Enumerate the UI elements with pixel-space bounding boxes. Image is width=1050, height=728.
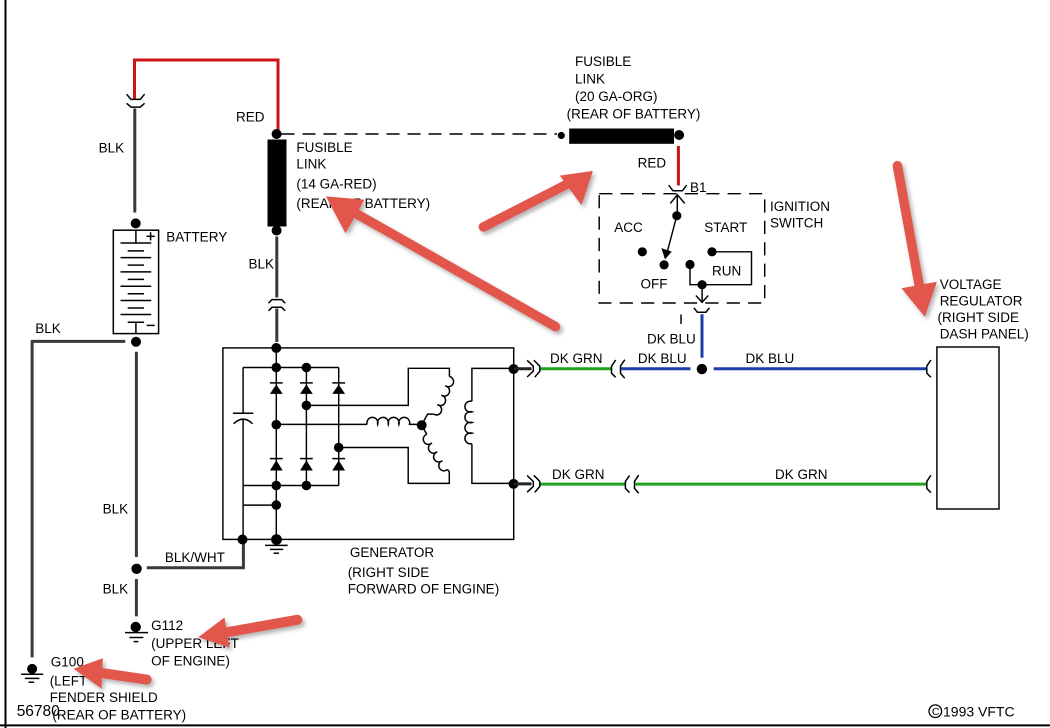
- node stator Y center: [417, 420, 427, 430]
- node generator output terminal bottom: [509, 479, 519, 489]
- svg-text:(RIGHT SIDE: (RIGHT SIDE: [938, 310, 1020, 325]
- svg-text:(REAR OF BATTERY): (REAR OF BATTERY): [567, 107, 701, 122]
- rectifier top rail: [243, 367, 339, 369]
- svg-text:OF ENGINE): OF ENGINE): [151, 654, 230, 669]
- ignition movable contact arm: [668, 216, 677, 251]
- diode D4: [270, 459, 283, 471]
- svg-text:BLK/WHT: BLK/WHT: [165, 550, 225, 565]
- wire stator phase 1: [306, 368, 449, 405]
- wire BLK battery negative down to G112: [135, 352, 138, 557]
- wire branch to BLK/WHT exit: [243, 504, 276, 506]
- battery minus mark: [147, 324, 155, 326]
- battery plus mark: [147, 232, 155, 240]
- copyright symbol: [929, 705, 942, 718]
- rectifier column 1: [275, 348, 277, 540]
- stator winding L3 (diagonal lower): [422, 425, 427, 434]
- node ignition output junction: [698, 280, 707, 289]
- svg-text:BATTERY: BATTERY: [166, 230, 227, 245]
- svg-text:1993 VFTC: 1993 VFTC: [943, 704, 1015, 720]
- diode D6: [332, 459, 345, 471]
- dashed tie line between fusible links: [282, 133, 558, 135]
- wire stator phase 2: [276, 423, 367, 425]
- svg-text:GENERATOR: GENERATOR: [350, 545, 435, 560]
- svg-text:START: START: [704, 220, 747, 235]
- connector B1: [669, 185, 687, 191]
- node battery -: [131, 337, 141, 347]
- fusible link F2 body (20 GA-ORG): [569, 129, 674, 144]
- connector pair DK GRN to DK BLU: [612, 360, 625, 379]
- svg-text:REGULATOR: REGULATOR: [940, 294, 1023, 309]
- rectifier column 2: [305, 368, 307, 486]
- diode D1: [270, 383, 283, 394]
- svg-text:(20 GA-ORG): (20 GA-ORG): [575, 89, 658, 104]
- svg-text:OFF: OFF: [641, 277, 668, 292]
- svg-text:VOLTAGE: VOLTAGE: [940, 277, 1002, 292]
- svg-text:DK GRN: DK GRN: [550, 351, 603, 366]
- svg-text:DK GRN: DK GRN: [552, 467, 605, 482]
- ignition arm arrowhead: [661, 248, 671, 259]
- svg-text:(LEFT: (LEFT: [50, 674, 88, 689]
- svg-text:BLK: BLK: [35, 321, 61, 336]
- node G100: [27, 664, 37, 674]
- node OFF contact: [660, 260, 669, 269]
- diode D2: [300, 383, 313, 394]
- svg-text:BLK: BLK: [99, 140, 125, 155]
- wire DK BLU horizontal right: [714, 367, 926, 370]
- field winding leads: [472, 368, 514, 401]
- svg-text:B1: B1: [690, 180, 707, 195]
- node fusible link F2 right: [674, 130, 684, 140]
- node BLK/WHT exit terminal: [238, 535, 248, 545]
- ground G112 symbol: [125, 633, 148, 642]
- svg-text:56780: 56780: [17, 703, 60, 720]
- svg-text:RED: RED: [236, 110, 265, 125]
- annotation arrow A to fusible link F1: [326, 196, 556, 326]
- node rail dots: [272, 363, 282, 373]
- wire RED to ignition switch B1: [677, 146, 680, 186]
- wire RUN loop: [690, 252, 752, 285]
- connector at voltage regulator bottom: [927, 475, 931, 492]
- wire BLK battery negative to left: [31, 340, 125, 343]
- svg-text:BLK: BLK: [103, 502, 129, 517]
- annotation arrow E to G100: [74, 658, 147, 688]
- connector below ignition switch: [694, 308, 710, 312]
- capacitor C1 lead top: [242, 368, 244, 414]
- svg-text:IGNITION: IGNITION: [770, 199, 830, 214]
- svg-text:FORWARD OF ENGINE): FORWARD OF ENGINE): [348, 581, 500, 596]
- stator winding L2 (horizontal): [367, 417, 420, 424]
- capacitor C1 plates: [233, 412, 253, 414]
- page border bottom: [0, 724, 1050, 726]
- ignition output arrow (down): [696, 285, 708, 303]
- svg-text:BLK: BLK: [249, 257, 275, 272]
- ground generator symbol: [265, 545, 288, 553]
- stator winding L1 (diagonal upper): [433, 376, 455, 416]
- svg-text:FUSIBLE: FUSIBLE: [575, 54, 631, 69]
- svg-text:FENDER SHIELD: FENDER SHIELD: [50, 690, 158, 705]
- svg-text:LINK: LINK: [296, 157, 326, 172]
- connector C101 on BLK wire: [269, 300, 286, 311]
- node battery +: [131, 218, 141, 228]
- node fusible link F1 bottom: [272, 226, 282, 236]
- field winding L4 (vertical): [465, 401, 472, 444]
- svg-text:(RIGHT SIDE: (RIGHT SIDE: [348, 565, 430, 580]
- node generator B+ terminal: [271, 343, 281, 353]
- svg-text:G112: G112: [151, 618, 183, 633]
- svg-text:RED: RED: [638, 156, 667, 171]
- ignition switch dashed box: [599, 194, 765, 303]
- generator box: [223, 348, 514, 540]
- connector pair DK GRN bottom: [625, 475, 638, 493]
- node fusible link F1 top: [272, 129, 282, 139]
- wire BLK/WHT branch to generator: [147, 541, 244, 567]
- capacitor C1 lead bottom: [242, 419, 244, 540]
- svg-text:DK BLU: DK BLU: [638, 351, 687, 366]
- wire RED battery positive (top loop): [135, 60, 279, 131]
- wire BLK junction down to G112: [135, 579, 138, 616]
- svg-text:DASH PANEL): DASH PANEL): [940, 327, 1029, 342]
- ignition switch input arrow (up): [670, 195, 684, 216]
- wire DK GRN bottom segment 1: [541, 483, 626, 486]
- svg-text:RUN: RUN: [712, 263, 741, 278]
- svg-text:(REAR OF BATTERY): (REAR OF BATTERY): [52, 708, 186, 723]
- wire BLK below fusible link F1: [275, 237, 278, 298]
- battery symbol: [113, 230, 158, 333]
- node BLK/WHT junction: [131, 564, 141, 574]
- svg-text:C: C: [932, 706, 940, 718]
- connector pair generator bottom output: [527, 475, 540, 492]
- page border left: [5, 0, 7, 728]
- wire stub generator bottom output: [514, 482, 532, 485]
- rectifier column 3: [338, 368, 340, 486]
- diode D3: [332, 383, 345, 394]
- svg-text:LINK: LINK: [575, 72, 605, 87]
- connector C100 male/female on battery positive: [127, 94, 145, 107]
- node START contact: [707, 247, 716, 256]
- node DK BLU junction: [697, 364, 707, 374]
- node generator output terminal top: [509, 364, 519, 374]
- annotation arrow C to voltage regulator: [897, 166, 937, 317]
- svg-text:(14 GA-RED): (14 GA-RED): [296, 176, 376, 191]
- wire DK GRN generator top to connector: [541, 367, 612, 370]
- wire DK GRN bottom segment 2: [635, 483, 926, 486]
- connector at voltage regulator top: [927, 360, 931, 377]
- node fusible link F2 left: [558, 132, 565, 139]
- svg-text:(REAR OF BATTERY): (REAR OF BATTERY): [296, 196, 430, 211]
- node generator ground: [271, 534, 282, 545]
- voltage regulator box: [937, 347, 999, 509]
- wire BLK into generator: [275, 309, 278, 343]
- svg-text:DK BLU: DK BLU: [746, 351, 795, 366]
- diode D5: [300, 459, 313, 471]
- annotation arrow B to fusible link F2: [483, 171, 593, 227]
- wire DK BLU ignition down: [701, 314, 704, 358]
- node RUN contact: [685, 260, 694, 269]
- rectifier bottom rail: [243, 485, 339, 487]
- wire BLK battery positive lead: [133, 109, 136, 213]
- svg-text:FUSIBLE: FUSIBLE: [296, 140, 352, 155]
- svg-text:SWITCH: SWITCH: [770, 216, 823, 231]
- annotation arrow D to G112: [198, 618, 297, 648]
- wire stub generator top output: [514, 367, 532, 370]
- node ACC contact: [638, 247, 647, 256]
- svg-text:ACC: ACC: [614, 220, 643, 235]
- fusible link F1 body (14 GA-RED): [268, 140, 287, 227]
- wire DK BLU horizontal left: [621, 367, 691, 370]
- svg-text:BLK: BLK: [103, 581, 129, 596]
- wire BLK left vertical to G100: [31, 341, 34, 657]
- ground G100 symbol: [21, 674, 43, 682]
- svg-text:DK GRN: DK GRN: [775, 467, 828, 482]
- node ignition pivot: [672, 211, 681, 220]
- label I tick: [680, 315, 682, 325]
- svg-text:DK BLU: DK BLU: [647, 332, 696, 347]
- node G112: [131, 622, 141, 632]
- connector pair generator top output: [527, 360, 540, 377]
- wire stator phase 3: [339, 448, 450, 484]
